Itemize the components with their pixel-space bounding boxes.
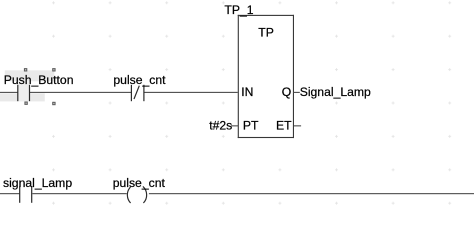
wire PT input tick	[231, 125, 238, 126]
contact C2 pulse_cnt (normally closed)	[131, 85, 145, 101]
svg-text:IN: IN	[241, 85, 253, 99]
wire rung2 left segment	[0, 193, 19, 194]
svg-text:ET: ET	[276, 119, 292, 133]
selection handle bottom-left	[24, 102, 27, 105]
timer block U1 TP body	[238, 15, 294, 138]
selection highlight of contact C1 (text band)	[5, 70, 55, 81]
wire rung2 right segment	[149, 193, 474, 194]
wire rung1 right segment to block IN	[144, 92, 238, 93]
svg-text:pulse_cnt: pulse_cnt	[113, 176, 166, 190]
svg-text:TP: TP	[258, 26, 274, 40]
svg-text:pulse_cnt: pulse_cnt	[113, 73, 166, 87]
wire Q output tick	[293, 92, 299, 93]
selection highlight of contact C1 (right of symbol)	[30, 93, 45, 101]
contact C3 signal_Lamp (normally open)	[19, 186, 32, 202]
contact C1 Push_Button (normally open)	[17, 85, 30, 101]
selection handle top-right	[52, 68, 55, 71]
selection handle bottom-right	[52, 102, 55, 105]
svg-text:Push_Button: Push_Button	[4, 73, 74, 87]
selection highlight of contact C1 (left of symbol)	[0, 93, 18, 101]
svg-text:Signal_Lamp: Signal_Lamp	[300, 85, 371, 99]
selection highlight of contact C1 (between bars strip)	[18, 81, 29, 101]
wire ET output tick	[294, 125, 301, 126]
wire rung1 left segment	[0, 92, 18, 93]
svg-text:Q: Q	[282, 85, 291, 99]
selection handle top-left	[24, 68, 27, 71]
wire rung1 middle segment	[30, 92, 132, 93]
wire rung2 middle segment	[32, 193, 126, 194]
svg-text:signal_Lamp: signal_Lamp	[3, 176, 72, 190]
svg-text:t#2s: t#2s	[209, 119, 232, 133]
svg-text:PT: PT	[243, 119, 259, 133]
coil pulse_cnt	[127, 186, 146, 203]
svg-text:TP_1: TP_1	[224, 3, 253, 17]
